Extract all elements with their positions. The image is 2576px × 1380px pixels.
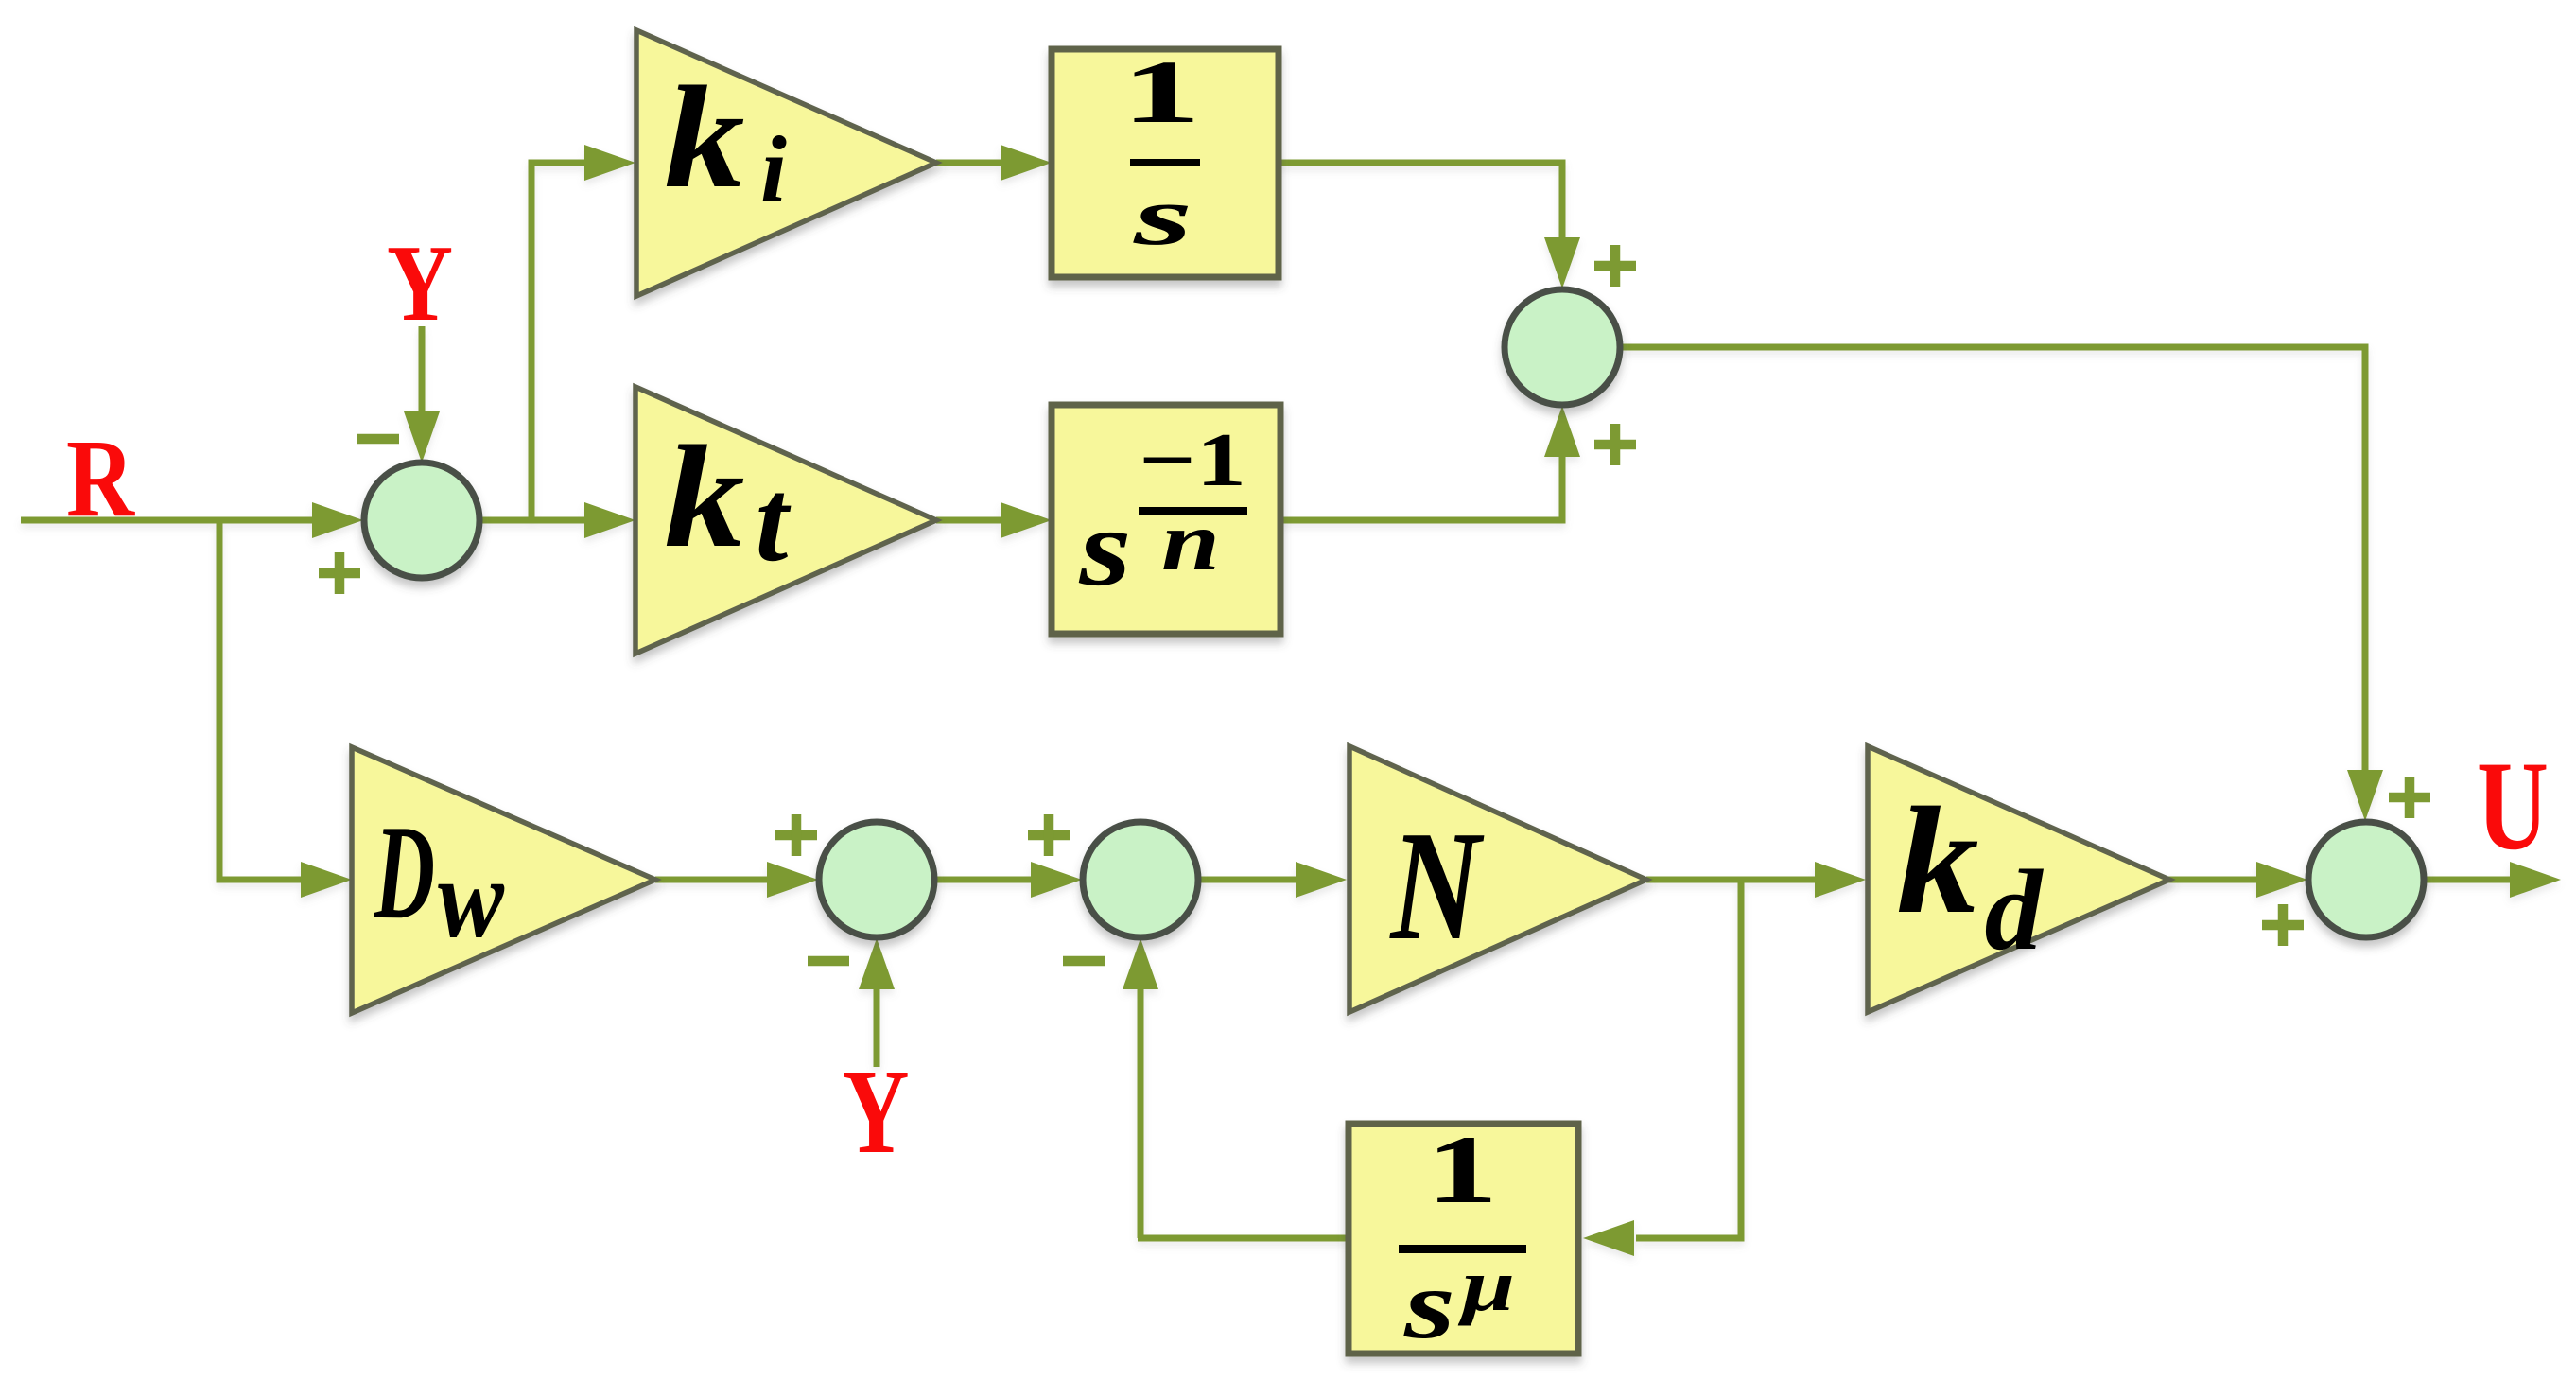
- svg-text:μ: μ: [1457, 1244, 1515, 1326]
- wire Y input down into S1: [419, 326, 426, 413]
- svg-text:s: s: [1078, 487, 1131, 609]
- gain triangle Kd: [1868, 746, 2169, 1012]
- svg-text:D: D: [374, 797, 435, 947]
- arrowhead into S1 left: [312, 502, 363, 538]
- sign plus at S1 left: [319, 552, 360, 594]
- arrowhead into s^(-1/n) box: [1001, 502, 1052, 538]
- gain triangle Dw: [352, 747, 655, 1013]
- arrowhead down into S2 top: [1544, 237, 1580, 288]
- sign plus at S4 top: [1028, 814, 1070, 856]
- summing junction S3: [819, 822, 934, 937]
- gain triangle N: [1349, 746, 1646, 1012]
- arrowhead into S3 left: [767, 862, 818, 898]
- fractional box s^(-1/n): [1052, 405, 1280, 634]
- wire S1 output to kt: [480, 517, 588, 524]
- sign plus at S2 bottom: [1594, 424, 1636, 465]
- arrowhead Y up into S3 bottom: [859, 938, 895, 989]
- sign minus at S4 bottom: [1063, 956, 1105, 967]
- arrowhead up into S2 bottom: [1544, 406, 1580, 457]
- wire Y input up into S3: [874, 987, 880, 1067]
- arrowhead into S5 left: [2256, 862, 2307, 898]
- svg-text:−1: −1: [1139, 419, 1246, 502]
- sign plus at S3 top: [775, 814, 817, 856]
- svg-text:k: k: [665, 415, 745, 578]
- wire kd output to S5: [2166, 877, 2260, 883]
- wire ki output to 1/s box: [936, 160, 1004, 166]
- value label kt: [665, 415, 792, 586]
- svg-text:k: k: [1897, 777, 1979, 946]
- svg-text:t: t: [756, 456, 792, 586]
- svg-text:s: s: [1132, 171, 1192, 263]
- summing junction S5: [2308, 822, 2424, 937]
- arrowhead output U: [2510, 862, 2561, 898]
- arrowhead into Dw: [301, 862, 352, 898]
- summing junction S4: [1083, 822, 1198, 937]
- wire feedback riser up into S4 bottom: [1138, 987, 1144, 1238]
- gain triangle Ki: [636, 30, 936, 296]
- wire branch of R down to Dw row: [219, 517, 305, 880]
- wire branch up to ki row: [531, 163, 588, 523]
- svg-text:n: n: [1161, 496, 1220, 588]
- svg-text:k: k: [665, 56, 745, 218]
- value label ki: [665, 56, 788, 221]
- sign minus at S1 top: [357, 434, 399, 445]
- value label Dw: [374, 797, 505, 961]
- arrowhead into kd: [1815, 862, 1866, 898]
- wire R input to summing junction S1: [21, 517, 316, 524]
- sign plus at S5 left: [2262, 904, 2304, 946]
- svg-text:w: w: [438, 835, 505, 961]
- integrator box 1/s: [1052, 49, 1279, 277]
- arrowhead up into S4 bottom: [1123, 938, 1158, 989]
- wire N output to kd: [1646, 877, 1819, 883]
- wire kt output to s^(-1/n) box: [936, 517, 1004, 524]
- wire junction drop from N output to feedback row: [1636, 877, 1741, 1238]
- sign plus at S2 top: [1594, 245, 1636, 287]
- arrowhead into S4 left: [1031, 862, 1082, 898]
- summing junction S2: [1505, 289, 1620, 405]
- svg-text:Y: Y: [843, 1044, 910, 1179]
- svg-text:R: R: [66, 416, 136, 540]
- value label 1/s^mu in feedback box: [1399, 1116, 1526, 1359]
- fractional box 1/s^mu: [1349, 1124, 1578, 1354]
- wire 1/s^mu box output left to feedback riser: [1138, 1235, 1349, 1242]
- svg-text:1: 1: [1426, 1116, 1498, 1224]
- svg-text:s: s: [1403, 1250, 1455, 1359]
- wire S2 output right and down to S5: [1621, 347, 2365, 772]
- arrowhead down into S5 top: [2347, 770, 2383, 821]
- svg-text:d: d: [1985, 847, 2045, 974]
- value label 1/s in integrator box: [1122, 42, 1201, 263]
- svg-text:Y: Y: [387, 223, 453, 343]
- svg-text:U: U: [2477, 736, 2549, 877]
- wire S4 output to N: [1199, 877, 1299, 883]
- svg-text:N: N: [1389, 798, 1485, 972]
- svg-text:1: 1: [1122, 42, 1201, 142]
- value label kd: [1897, 777, 2045, 974]
- arrowhead into kt: [584, 502, 635, 538]
- arrowhead into N: [1296, 862, 1347, 898]
- wire s^(-1/n) box output over and up to S2: [1280, 455, 1562, 520]
- arrowhead left into 1/s^mu box: [1583, 1220, 1634, 1256]
- gain triangle Kt: [635, 387, 936, 654]
- arrowhead into ki: [584, 145, 635, 181]
- sign minus at S3 bottom: [808, 956, 849, 967]
- wire S3 output to S4: [935, 877, 1035, 883]
- arrowhead into 1/s box: [1001, 145, 1052, 181]
- svg-text:i: i: [760, 116, 787, 221]
- arrowhead Y into S1 top: [404, 411, 440, 463]
- sign plus at S5 top: [2389, 777, 2430, 818]
- wire 1/s box output over and down to S2: [1279, 163, 1562, 241]
- summing junction S1: [364, 463, 479, 578]
- value label s^(-1/n) in fractional box: [1078, 419, 1247, 609]
- wire Dw output to S3: [655, 877, 771, 883]
- wire S5 output U: [2425, 877, 2514, 883]
